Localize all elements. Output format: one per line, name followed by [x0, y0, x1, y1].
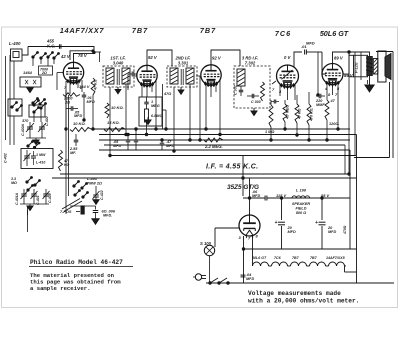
- svg-text:MFD: MFD: [288, 230, 296, 234]
- svg-text:7-POS: 7-POS: [60, 210, 72, 214]
- label 42V at V1 grid: [60, 54, 71, 59]
- label 47K det: [298, 108, 302, 120]
- capacitor .006 MFD: [93, 211, 99, 219]
- label .01 MFD top: [301, 41, 315, 50]
- label tube V6 type 35Z5 GT/G: [227, 184, 259, 191]
- contacts above L-410: [27, 141, 40, 149]
- nested wire above V1 outer: [28, 47, 95, 54]
- trimmer capacitor C-409: [43, 189, 53, 204]
- svg-text:47 KΩ: 47 KΩ: [298, 108, 302, 120]
- bus wire y174: [60, 173, 350, 175]
- label 134V: [79, 84, 90, 89]
- capacitor C302 in T3: [234, 85, 244, 96]
- svg-text:120Ω.: 120Ω.: [329, 122, 339, 126]
- svg-text:50L6 GT: 50L6 GT: [252, 256, 267, 260]
- svg-text:2Ω: 2Ω: [41, 71, 47, 75]
- wire V4 pins: [272, 81, 295, 100]
- label 455 KC: [46, 39, 55, 49]
- capacitor in box: [144, 97, 149, 108]
- svg-text:50L6 GT: 50L6 GT: [320, 29, 349, 38]
- label IF 455: [206, 164, 258, 171]
- resistor 47K det: [295, 95, 299, 135]
- switch contacts 2: [11, 100, 47, 114]
- AC plug: [193, 274, 206, 280]
- transformer T3 secondary resistor: [261, 82, 265, 101]
- svg-text:MFD: MFD: [74, 114, 82, 118]
- capacitor .05 MFD bus B: [134, 129, 139, 150]
- wire T1 primary down: [109, 87, 111, 156]
- label 86V at V5 screen: [344, 73, 354, 78]
- capacitor C-422: [93, 186, 105, 200]
- transformer T2 core: [181, 69, 183, 85]
- label L-403: [87, 177, 102, 186]
- wire V6 left: [215, 228, 239, 247]
- svg-text:7C6: 7C6: [274, 256, 282, 260]
- junction dots buses: [65, 51, 350, 199]
- label 2.2 MEG bus: [204, 144, 223, 149]
- svg-text:a sample receiver.: a sample receiver.: [30, 285, 90, 292]
- svg-text:FIELD: FIELD: [296, 207, 307, 211]
- label 47 ohm screen: [163, 92, 171, 96]
- wire transformer bottoms: [355, 52, 368, 156]
- capacitor left of V2: [128, 72, 137, 91]
- trimmer capacitor C-401: [31, 189, 41, 205]
- svg-text:MΩ: MΩ: [11, 181, 17, 185]
- bus wire y129: [92, 128, 350, 130]
- wire T2 secondary down: [190, 76, 200, 140]
- antenna loop L-400: [11, 49, 23, 61]
- svg-text:C-422: C-422: [100, 190, 104, 200]
- svg-text:89 V: 89 V: [334, 56, 344, 61]
- label .05 MFD V1: [74, 111, 82, 119]
- speaker cone: [385, 54, 391, 80]
- label S 100: [200, 241, 212, 246]
- svg-text:370: 370: [22, 119, 29, 123]
- wire V6 cathode down: [242, 236, 244, 283]
- transformer T1 1st IF dashed box: [103, 66, 134, 87]
- wire switch verticals: [33, 57, 54, 66]
- transformer T2 primary coil: [170, 68, 178, 84]
- ground below T1: [115, 87, 121, 94]
- wire T2 primary down: [173, 87, 175, 151]
- svg-text:470Ω: 470Ω: [343, 225, 347, 235]
- bus wire y155.5: [110, 155, 356, 157]
- svg-text:MEG: MEG: [151, 104, 160, 108]
- capacitor AF coupling: [271, 100, 279, 104]
- svg-text:K.C.: K.C.: [47, 44, 55, 49]
- pilot lamp S100: [204, 245, 215, 282]
- ground below T2: [178, 87, 184, 94]
- bus right verticals: [345, 135, 357, 284]
- svg-text:14AF7/XX8: 14AF7/XX8: [326, 256, 345, 260]
- coil 1464: [20, 77, 41, 87]
- power switch: [209, 278, 229, 284]
- resistor 47K osc: [59, 150, 63, 171]
- svg-text:15 KΩ.: 15 KΩ.: [107, 120, 120, 125]
- svg-text:Voltage measurements made: Voltage measurements made: [248, 290, 341, 297]
- label L 100: [296, 188, 307, 193]
- resistor 2200 ohm: [63, 93, 80, 105]
- label .47 MFD bus: [166, 140, 174, 148]
- tube V1 14AF7/XX7 converter: [63, 62, 83, 85]
- svg-text:L 100: L 100: [296, 188, 307, 193]
- svg-text:L-410: L-410: [36, 161, 45, 165]
- wire trimmer row2 bottoms: [20, 203, 49, 205]
- bus wire y134.5: [99, 134, 357, 136]
- svg-text:1 MΩ: 1 MΩ: [265, 130, 274, 134]
- switch contacts 4: [73, 181, 89, 198]
- svg-text:7MW 2Ω: 7MW 2Ω: [87, 182, 102, 186]
- wire box down: [147, 110, 167, 135]
- electrolytic 20MFD B: [315, 198, 336, 249]
- output transformer frame: [354, 55, 368, 77]
- svg-text:2Ω: 2Ω: [64, 100, 70, 104]
- label .04 MFD: [246, 273, 254, 281]
- svg-text:MFD: MFD: [166, 144, 174, 148]
- wire V2 plate top: [147, 50, 172, 66]
- label 89V at V5 plate: [334, 56, 344, 61]
- capacitor .04 MFD line: [241, 275, 246, 277]
- svg-text:Philco Radio Model 46-427: Philco Radio Model 46-427: [30, 259, 123, 266]
- output transformer primary: [366, 57, 373, 76]
- label 4.7 MEG: [286, 105, 290, 120]
- label 92V at V2 plate: [148, 55, 158, 60]
- wire .01 to V5 grid: [318, 52, 326, 95]
- capacitor .01 MFD at V1: [82, 92, 87, 101]
- svg-text:MF.: MF.: [70, 151, 76, 155]
- label 3.3 MEG: [11, 177, 17, 185]
- svg-text:S 100: S 100: [200, 241, 212, 246]
- svg-text:C-400A: C-400A: [21, 123, 25, 136]
- svg-text:MFD: MFD: [87, 100, 95, 104]
- ground below trimmers row2: [27, 204, 33, 211]
- svg-text:7B7: 7B7: [132, 26, 148, 35]
- resistor 10K horizontal: [70, 128, 92, 132]
- wire bottom junction box: [343, 225, 357, 272]
- label 1 MEG volume: [265, 130, 274, 134]
- capacitor .01 MFD top: [305, 50, 322, 55]
- label .06 MFD ps: [252, 190, 260, 198]
- svg-text:SPEAKER: SPEAKER: [292, 202, 311, 206]
- svg-text:7B7: 7B7: [200, 26, 216, 35]
- svg-text:42 V: 42 V: [60, 54, 71, 59]
- svg-text:115 V: 115 V: [276, 193, 286, 198]
- svg-text:C-409: C-409: [48, 193, 52, 203]
- bus wire y150: [99, 149, 350, 151]
- output transformer secondary: [373, 59, 378, 75]
- label 15K horizontal: [107, 120, 120, 125]
- label .05 MFD bus: [113, 140, 121, 148]
- left rail: [9, 55, 11, 145]
- svg-text:47 KΩ: 47 KΩ: [94, 79, 98, 91]
- svg-text:MFD: MFD: [252, 194, 260, 198]
- label C-402: [4, 153, 8, 163]
- svg-text:7.302: 7.302: [245, 61, 256, 66]
- label 115V: [276, 193, 286, 198]
- svg-text:with a 20,000 ohms/volt meter.: with a 20,000 ohms/volt meter.: [248, 298, 359, 305]
- switch contacts 3: [26, 177, 40, 191]
- capacitor in antenna top wire: [59, 44, 61, 49]
- capacitor C303 in T3: [247, 94, 261, 104]
- label 0V at V4: [284, 55, 291, 60]
- svg-text:3.301: 3.301: [178, 61, 189, 66]
- capacitor .05 MFD bus A: [126, 135, 131, 151]
- wire left column bottom: [27, 210, 29, 215]
- label tube V5 type 50L6GT: [320, 29, 349, 38]
- svg-text:C-400: C-400: [45, 116, 49, 126]
- capacitor 220MMF grid: [316, 94, 325, 99]
- oscillator coil L-410 box: [21, 149, 53, 169]
- svg-text:MFD.: MFD.: [103, 214, 112, 218]
- ground below C-422: [93, 200, 99, 205]
- svg-text:10 KΩ.: 10 KΩ.: [111, 105, 124, 110]
- resistor 15K horizontal: [104, 128, 126, 132]
- label 1st IF transformer: [110, 56, 125, 66]
- wire T1 secondary down: [126, 76, 163, 135]
- resistor 47 ohm cathode: [325, 100, 329, 140]
- trimmer C-402 inside box: [24, 150, 31, 166]
- label 7000 ohm: [39, 66, 53, 75]
- transformer T1 primary coil: [106, 68, 114, 84]
- svg-text:C-402: C-402: [4, 153, 8, 163]
- ground arrow below coil: [27, 87, 33, 93]
- label 370: [22, 119, 29, 123]
- pin labels V4: [272, 87, 282, 94]
- label 2.2MF: [69, 147, 78, 155]
- svg-text:MFD: MFD: [246, 277, 254, 281]
- far left wire: [5, 56, 7, 140]
- wire V1 left: [57, 73, 63, 91]
- label 2nd IF transformer: [174, 56, 190, 66]
- wire V1 plate top: [74, 54, 79, 63]
- right rail: [376, 52, 393, 159]
- label 85V: [321, 193, 330, 198]
- svg-text:85 V: 85 V: [321, 193, 330, 198]
- svg-text:47: 47: [330, 99, 336, 103]
- wire V5 right screen: [343, 52, 349, 174]
- capacitor .47 MFD bus: [160, 140, 165, 150]
- electrolytic 20MFD A: [275, 198, 296, 249]
- label 10K vertical: [111, 105, 124, 110]
- choke L100 bumps: [292, 196, 310, 198]
- label 3rd IF transformer: [242, 56, 258, 66]
- note voltage measurements: [248, 290, 359, 305]
- speaker return wire: [354, 82, 390, 158]
- svg-text:MFD: MFD: [113, 144, 121, 148]
- speaker frame: [378, 51, 386, 82]
- wire V1 bottom rails: [66, 92, 84, 129]
- switch assembly 2 box: [8, 99, 22, 116]
- bottom rail: [206, 282, 394, 284]
- dial cord diagonals: [62, 199, 84, 215]
- resistor 470K: [307, 92, 311, 140]
- wire left bus verticals: [14, 124, 28, 232]
- svg-text:C-401: C-401: [36, 195, 40, 205]
- tube V5 50L6GT output: [322, 64, 343, 87]
- svg-text:C 302: C 302: [234, 85, 238, 95]
- svg-text:+: +: [315, 220, 318, 226]
- nested wire above V1 mid: [70, 50, 94, 60]
- nested wire above V1 inner: [78, 52, 101, 62]
- resistor 6.8M in box: [145, 108, 149, 126]
- svg-text:800 Ω: 800 Ω: [296, 211, 306, 215]
- resistor 10K vertical: [105, 103, 109, 118]
- ground mid: [145, 117, 151, 125]
- wire 47K down: [92, 95, 94, 129]
- box 1MEG 6.8Mohm: [139, 97, 162, 126]
- tube V3 7B7 IF amp: [201, 65, 221, 88]
- wire left column: [13, 61, 15, 99]
- resistor 2.2 MEG bus: [204, 138, 223, 142]
- svg-text:I.F. = 4.55 K.C.: I.F. = 4.55 K.C.: [206, 164, 258, 171]
- trimmer capacitor C-400: [38, 116, 49, 138]
- wire V1 pins down: [66, 80, 82, 94]
- label filament string tubes: [252, 256, 345, 260]
- label 7-POS: [60, 210, 80, 214]
- wires to trimmers: [14, 108, 41, 124]
- svg-text:47Ω: 47Ω: [163, 92, 171, 96]
- svg-text:L-400: L-400: [9, 41, 21, 46]
- transformer T1 core: [117, 69, 119, 85]
- filament string bumps: [253, 262, 347, 266]
- label 78V at V1 plate: [78, 53, 88, 58]
- wire V2 pins down: [142, 81, 156, 129]
- ground below output transformer: [365, 76, 374, 92]
- label 10K horizontal: [73, 121, 86, 126]
- label 47K osc: [63, 159, 70, 167]
- svg-text:1464: 1464: [23, 70, 33, 75]
- label 470K: [310, 108, 314, 122]
- wire V6 heater down: [252, 236, 254, 266]
- svg-text:7B7: 7B7: [292, 256, 300, 260]
- bus wire y140: [99, 139, 350, 141]
- svg-text:92 V: 92 V: [148, 55, 158, 60]
- capacitor 2.2MF: [74, 134, 79, 146]
- rail B-minus: [244, 248, 357, 250]
- resistor 47K V1: [91, 78, 95, 95]
- label 1 MEG: [151, 100, 160, 108]
- capacitor .06 MFD ps: [243, 196, 350, 201]
- label speaker field: [292, 202, 311, 215]
- label .01 MFD V1: [87, 96, 95, 104]
- svg-text:+: +: [275, 220, 278, 226]
- wire V6 top: [242, 156, 251, 214]
- trimmer 2 inside L-410: [31, 151, 36, 165]
- title Philco Radio Model 46-427: [29, 259, 133, 267]
- wire b-plus stubs: [349, 52, 354, 77]
- label .006 MFD: [102, 210, 116, 218]
- band switch contacts top: [32, 52, 59, 60]
- transformer T3 primary coil: [237, 69, 245, 86]
- svg-text:470 KΩ.: 470 KΩ.: [310, 108, 314, 122]
- switch box 2b: [29, 98, 45, 117]
- label tube V4 type 7C6: [275, 29, 291, 38]
- wire V5 pins down: [327, 83, 338, 129]
- label tube V2 type 7B7: [132, 26, 148, 35]
- transformer T3 dashed box: [234, 66, 270, 108]
- transformer T1 secondary coil: [122, 68, 130, 84]
- pin labels V1: [64, 86, 83, 90]
- wire to .006: [70, 206, 96, 210]
- transformer T2 secondary coil: [186, 68, 194, 84]
- left verticals pair: [66, 90, 69, 214]
- svg-text:92 V: 92 V: [212, 56, 222, 61]
- label tube V1 type 14AF7/XX7: [60, 26, 105, 35]
- wire V5 plate top: [333, 52, 370, 64]
- wire V4 top cap: [294, 52, 302, 67]
- svg-text:2.2 MEG.: 2.2 MEG.: [204, 144, 223, 149]
- svg-text:3.040: 3.040: [113, 61, 124, 66]
- label L-400 antenna: [9, 41, 21, 46]
- volume control 1 MEG: [269, 100, 273, 140]
- wire V3 plate top: [211, 50, 240, 66]
- transformer T2 2nd IF dashed box: [167, 66, 197, 87]
- capacitor .05 MFD V1: [66, 106, 78, 111]
- pin labels V5: [324, 86, 340, 97]
- label 92V at V3 plate: [212, 56, 222, 61]
- svg-text:MFD: MFD: [328, 230, 336, 234]
- svg-text:10 KΩ.: 10 KΩ.: [73, 121, 86, 126]
- paragraph material note: [30, 272, 121, 292]
- label 220 MMF: [315, 99, 325, 107]
- ground below trimmers row1: [33, 138, 39, 145]
- svg-text:7C6: 7C6: [275, 29, 291, 38]
- svg-text:MFD: MFD: [306, 41, 315, 46]
- wire trimmer bottoms: [26, 137, 46, 139]
- trimmer capacitor C-400A: [21, 122, 34, 138]
- svg-text:KΩ: KΩ: [64, 163, 70, 167]
- bus wire y178: [52, 177, 357, 179]
- ground below .006: [92, 219, 99, 224]
- svg-text:C-401A: C-401A: [15, 192, 19, 205]
- tube V6 35Z5GT rectifier: [239, 213, 260, 238]
- svg-text:7B7: 7B7: [310, 256, 318, 260]
- svg-text:6.8MΩ: 6.8MΩ: [151, 114, 162, 118]
- svg-text:14AF7/XX7: 14AF7/XX7: [60, 26, 105, 35]
- trimmer capacitor C-401A: [15, 189, 28, 205]
- label 1464: [23, 70, 33, 75]
- label 6.8M: [151, 114, 162, 118]
- wire V3 pins down: [206, 80, 220, 135]
- svg-text:C 303: C 303: [251, 100, 261, 104]
- label 47K V1: [94, 79, 98, 91]
- resistor 4.7 MEG: [283, 100, 287, 129]
- svg-text:MMF: MMF: [316, 103, 325, 107]
- label 47 cathode: [329, 99, 339, 126]
- label P-12 output transformer: [355, 62, 359, 73]
- pin labels V6: [239, 234, 259, 241]
- tube V4 7C6 det/AVC/AF: [277, 65, 299, 89]
- wire antenna to switch: [22, 47, 28, 56]
- tube V2 7B7 IF amp: [137, 65, 157, 88]
- label tube V3 type 7B7: [200, 26, 216, 35]
- bus wire y145: [104, 144, 345, 146]
- ground below T3: [251, 108, 257, 116]
- svg-text:1 MW: 1 MW: [36, 153, 46, 157]
- svg-text:4.7 MEG: 4.7 MEG: [286, 105, 290, 120]
